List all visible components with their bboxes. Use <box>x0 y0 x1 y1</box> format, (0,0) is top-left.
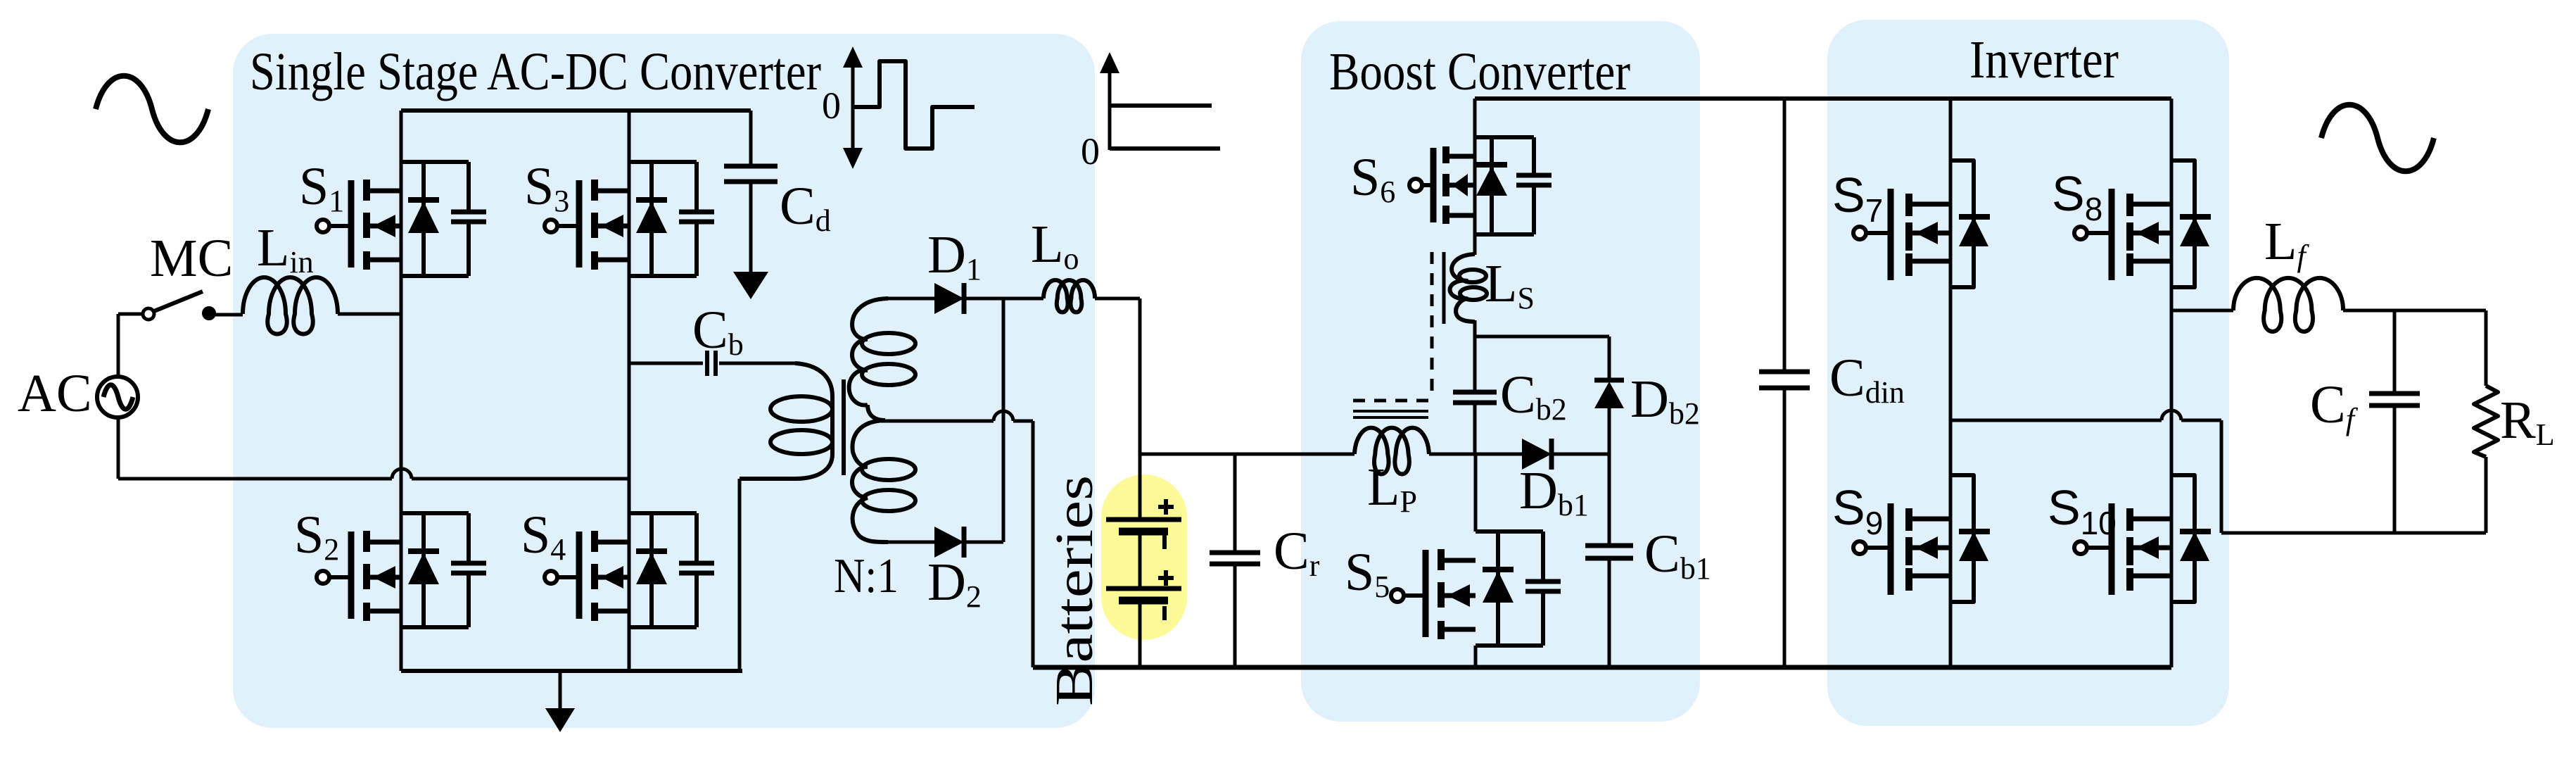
label S8 <box>2052 166 2102 227</box>
diode D1 <box>934 283 964 314</box>
title: Inverter <box>1969 30 2119 89</box>
wire between cells <box>1138 532 1142 589</box>
label Batteries <box>1045 475 1104 706</box>
transformer primary entry <box>795 363 832 396</box>
svg-text:Single Stage AC-DC Converter: Single Stage AC-DC Converter <box>250 42 821 101</box>
inductor LP <box>1354 428 1429 474</box>
capacitor Cb1 <box>1585 454 1633 667</box>
wire D1-D2 junction vertical <box>1002 298 1005 542</box>
label Lo <box>1031 215 1079 276</box>
svg-text:0: 0 <box>822 84 841 127</box>
svg-text:Batteries: Batteries <box>1045 475 1104 706</box>
label D1 <box>927 225 982 287</box>
coupling dashed horizontal <box>1353 399 1437 403</box>
label S4 <box>521 505 566 567</box>
label Lin <box>257 218 314 279</box>
wire center tap drop <box>1032 421 1035 667</box>
switch MC <box>143 291 215 320</box>
capacitor Cf <box>2369 310 2420 533</box>
wire center tap to drop <box>1013 420 1033 423</box>
label LS <box>1485 254 1535 315</box>
label Cb2 <box>1500 365 1567 427</box>
capacitor Cd <box>724 111 778 275</box>
waveform dc trace <box>1110 106 1220 149</box>
label Cd <box>780 177 831 238</box>
mosfet S9 <box>1853 475 1990 602</box>
battery cell 2 <box>1106 589 1181 600</box>
mosfet S3 <box>545 162 714 276</box>
wire left bridge leg <box>400 111 403 671</box>
wire S5 leg <box>1474 454 1478 667</box>
sine symbol left <box>96 76 208 143</box>
transformer core <box>842 379 846 475</box>
wire MC to Lin <box>215 313 243 317</box>
title: Single Stage AC-DC Converter <box>250 42 821 101</box>
diode Db2 <box>1594 380 1624 408</box>
inductor LS <box>1450 254 1487 322</box>
wire S9 trunk <box>1949 420 1953 667</box>
battery plus 2 <box>1158 570 1174 586</box>
wire phase A out <box>1950 419 2162 422</box>
wire AC to MC <box>118 313 144 316</box>
label LP <box>1367 458 1417 519</box>
wire Db2 to node <box>1608 407 1611 454</box>
svg-text:N:1: N:1 <box>834 549 899 603</box>
label S2 <box>294 505 339 567</box>
svg-text:Inverter: Inverter <box>1969 30 2119 89</box>
sine symbol right <box>2321 105 2434 172</box>
transformer secondary winding <box>849 298 915 542</box>
transformer primary exit <box>740 454 832 479</box>
wire phase A to corner <box>2181 420 2221 533</box>
ground arrow Cd <box>733 272 768 299</box>
wire D1 to junction <box>964 297 1003 301</box>
label MC <box>150 229 233 288</box>
capacitor Cb2 <box>1453 392 1497 403</box>
ground arrow bridge <box>545 671 575 732</box>
svg-text:MC: MC <box>150 229 233 288</box>
battery cell 1 <box>1106 520 1181 532</box>
wire S7 trunk <box>1949 99 1953 420</box>
mosfet S5 <box>1391 532 1561 646</box>
wire hop over left leg <box>392 469 412 479</box>
AC source V1 <box>97 377 138 417</box>
wire junction to Lo <box>1003 297 1043 301</box>
label S7 <box>1832 168 1883 229</box>
wire Db1 to Cb1 node <box>1552 453 1609 456</box>
svg-text:0: 0 <box>1081 130 1100 172</box>
label AC <box>18 364 92 423</box>
label Db2 <box>1630 370 1700 431</box>
svg-text:Boost Converter: Boost Converter <box>1329 42 1630 101</box>
label S5 <box>1345 543 1390 604</box>
label D2 <box>927 553 982 614</box>
mosfet S2 <box>317 513 486 627</box>
battery minus 1 <box>1162 535 1167 549</box>
wire AC return to right leg <box>412 477 629 481</box>
label S9 <box>1832 480 1883 541</box>
waveform dc axis <box>1100 52 1119 150</box>
resistor RL <box>2474 310 2498 533</box>
title: Boost Converter <box>1329 42 1630 101</box>
highlight: Batteries yellow <box>1101 474 1187 640</box>
wire bridge bottom rail <box>401 669 742 673</box>
waveform square-wave trace <box>853 61 975 149</box>
wire secondary center tap <box>881 420 994 423</box>
label S1 <box>299 157 344 218</box>
wire Lin to leg <box>338 313 401 316</box>
wire D2 to junction <box>964 541 1003 544</box>
waveform square-wave axis <box>843 46 863 169</box>
coupling core LP <box>1353 411 1428 417</box>
mosfet S1 <box>317 162 486 276</box>
wire hop over right leg <box>2162 410 2181 420</box>
inductor Lin <box>243 277 338 334</box>
region box: Single Stage AC-DC Converter <box>233 34 1095 728</box>
wire battery to rail <box>1138 600 1142 667</box>
region box: Inverter <box>1827 20 2229 726</box>
label Cdin <box>1829 348 1905 410</box>
diode D2 <box>934 527 964 558</box>
wire top rail boost-inverter <box>1475 96 2171 101</box>
battery plus 1 <box>1158 499 1174 515</box>
wire top rail bridge <box>401 108 751 113</box>
label Db1 <box>1519 461 1589 522</box>
capacitor Cb <box>707 351 716 376</box>
label S10 <box>2048 480 2117 541</box>
svg-text:AC: AC <box>18 364 92 423</box>
mosfet S7 <box>1853 161 1990 287</box>
label Cf <box>2310 375 2359 436</box>
label S6 <box>1350 148 1395 209</box>
wire secondary top to D1 <box>886 297 934 301</box>
coupling core LS <box>1442 252 1446 324</box>
wire primary return <box>738 479 742 671</box>
wire node to Db2 top <box>1475 337 1609 380</box>
battery minus 2 <box>1162 606 1167 620</box>
wire hop center tap <box>994 411 1013 421</box>
wire LP to Db1 <box>1429 453 1522 456</box>
wire S10 trunk <box>2170 310 2174 667</box>
wire Lo to battery column <box>1095 298 1140 520</box>
inductor Lo <box>1043 280 1095 313</box>
wire LS to node <box>1473 320 1477 392</box>
mosfet S10 <box>2074 475 2211 602</box>
capacitor Cr <box>1210 454 1260 667</box>
label N:1 <box>834 549 899 603</box>
label 0 square-wave <box>822 84 841 127</box>
capacitor Cdin <box>1759 99 1810 667</box>
transformer primary winding <box>770 396 832 454</box>
region box: Boost Converter <box>1301 21 1700 722</box>
mosfet S6 <box>1409 137 1552 234</box>
wire secondary bottom to D2 <box>886 541 934 544</box>
label Cb <box>692 301 744 362</box>
wire dc bus mid <box>1140 453 1354 456</box>
label 0 dc <box>1081 130 1100 172</box>
label S3 <box>524 157 569 218</box>
coupling dashed vertical <box>1430 252 1434 391</box>
wire AC top <box>117 314 120 377</box>
wire S6 leg <box>1473 99 1477 255</box>
wire bottom rail right <box>1033 665 2171 670</box>
wire right bridge leg <box>628 111 631 671</box>
label Lf <box>2264 212 2309 273</box>
wire leg to Cb <box>629 362 703 365</box>
label Cr <box>1274 522 1320 583</box>
inductor Lf <box>2233 278 2343 332</box>
wire S8 node to Lf <box>2171 309 2233 313</box>
mosfet S8 <box>2074 161 2211 287</box>
wire load bottom <box>2221 532 2486 535</box>
diode Db1 <box>1522 439 1552 470</box>
wire Lf to RL <box>2343 309 2486 313</box>
wire S8 trunk <box>2170 99 2174 310</box>
wire AC bottom <box>118 417 392 479</box>
wire Cb2 to LP node <box>1473 403 1477 454</box>
label RL <box>2500 391 2555 452</box>
label Cb1 <box>1644 524 1711 586</box>
mosfet S4 <box>545 513 714 627</box>
wire Cb to primary <box>719 362 795 365</box>
